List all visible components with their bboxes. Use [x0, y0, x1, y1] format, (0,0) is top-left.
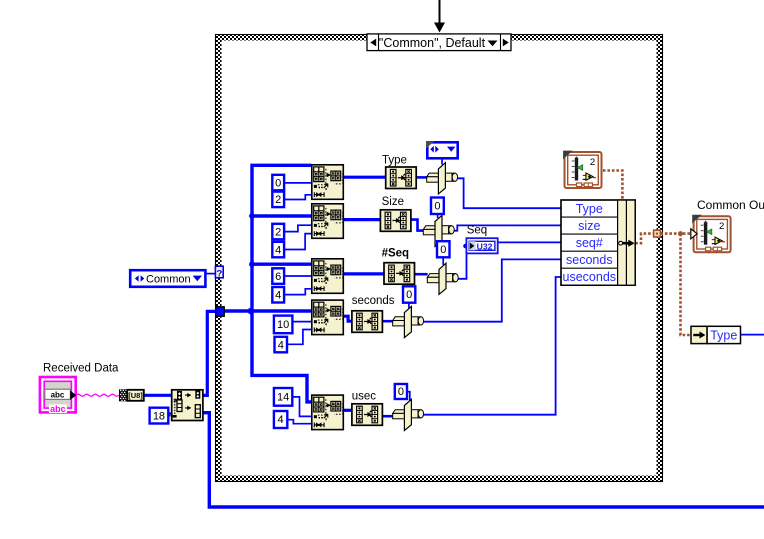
join numbers row1 Type [427, 163, 458, 194]
svg-text:Type: Type [576, 202, 603, 216]
type cast node usec [352, 404, 383, 426]
wire const 4 row4 length [287, 330, 311, 345]
svg-text:2: 2 [719, 221, 724, 232]
case structure border [215, 34, 663, 482]
numeric constant 2 row2 [272, 224, 284, 240]
numeric constant 18 [150, 408, 169, 424]
input tunnel (solid blue square) [216, 307, 225, 317]
numeric constant 0 above seconds join [403, 286, 415, 302]
enum constant Common [130, 270, 205, 287]
wire useconds value to bundle [424, 277, 561, 415]
numeric constant 4 row4 [275, 337, 288, 353]
svg-text:10: 10 [277, 319, 289, 331]
junction seq wire at U32 indicator [463, 244, 468, 249]
junction cluster wire [678, 231, 683, 236]
svg-text:0: 0 [398, 386, 404, 398]
wire unbundle Type output [741, 334, 764, 336]
wire const 4 row3 length [284, 289, 311, 295]
array subset node row2 Size [312, 204, 345, 239]
svg-text:?: ? [216, 268, 222, 279]
join numbers row3 #Seq [427, 263, 458, 294]
svg-text:"Common", Default: "Common", Default [379, 36, 486, 50]
svg-text:[U8]: [U8] [128, 391, 143, 400]
svg-text:seq#: seq# [576, 236, 603, 250]
type cast node #Seq [384, 263, 415, 285]
svg-text:4: 4 [275, 244, 281, 256]
svg-text:0: 0 [406, 289, 412, 301]
junction trunk row3 [249, 261, 255, 267]
wire split bottom output down and right [203, 413, 764, 507]
array subset node row3 #Seq [312, 259, 345, 294]
wire subset5 to typecast usec [343, 409, 352, 412]
wire branch row3 [252, 263, 311, 266]
wire enum constant to join1 [441, 160, 443, 165]
wire subset2 to typecast Size [343, 218, 380, 221]
case selector label "Common", Default [367, 34, 511, 51]
numeric constant 0 above #Seq join [437, 241, 450, 257]
numeric constant 10 row4 [274, 316, 293, 334]
svg-text:2: 2 [590, 157, 595, 168]
numeric constant 14 row5 [274, 388, 292, 406]
wire const 2 row1 length [284, 195, 311, 200]
string to byte array cast [U8] [119, 389, 144, 401]
svg-text:abc: abc [50, 404, 66, 414]
array subset node row1 Type [312, 165, 345, 200]
svg-text:seconds: seconds [352, 295, 395, 307]
cluster wire constant to bundle [603, 171, 623, 201]
wire trunk vertical with branches [252, 165, 311, 402]
wire const 4 row2 length [284, 234, 311, 250]
svg-text:Type: Type [710, 328, 737, 342]
array subset node row5 usec [312, 395, 345, 430]
join numbers row5 usec [393, 399, 424, 430]
svg-text:size: size [578, 219, 600, 233]
svg-text:0: 0 [434, 200, 440, 212]
wire const 0 to join5 [407, 392, 410, 401]
split 1D array node [172, 390, 203, 421]
string wire squiggle [76, 394, 119, 396]
wire const 18 to split [168, 413, 171, 415]
svg-text:U32: U32 [477, 241, 493, 251]
wire typecast seconds to join [383, 320, 393, 323]
svg-text:14: 14 [277, 392, 289, 404]
svg-text:Common Out: Common Out [697, 198, 764, 212]
join numbers row2 Size [423, 215, 454, 246]
svg-text:Size: Size [382, 196, 404, 208]
numeric constant 0 above Size join [431, 198, 444, 215]
wire const 14 row5 index [292, 397, 311, 417]
wire Type value to bundle [457, 178, 561, 208]
wire const 6 row3 index [284, 275, 311, 277]
numeric constant 4 row2 [272, 242, 284, 257]
wire enum Common to selector tunnel [207, 273, 216, 275]
type cast node Type [386, 167, 417, 189]
svg-text:seconds: seconds [566, 253, 613, 267]
svg-text:4: 4 [278, 339, 284, 351]
bundle by name node [561, 200, 635, 285]
numeric indicator Seq U32 [466, 238, 497, 253]
arrow into case structure [434, 0, 445, 33]
junction trunk row2 [249, 213, 255, 219]
type cast node seconds [352, 311, 383, 333]
type cast node Size [380, 210, 411, 232]
svg-text:useconds: useconds [563, 270, 617, 284]
wire seconds value to bundle [424, 259, 561, 321]
wire branch row2 [252, 214, 311, 217]
cluster wire bundle to tunnel [635, 234, 653, 244]
svg-text:2: 2 [275, 194, 281, 206]
svg-text:0: 0 [440, 244, 446, 256]
wire subset4 to typecast seconds [343, 316, 352, 321]
wire const 0 to join4 [408, 303, 410, 309]
wire const 0 to join3 [442, 257, 444, 265]
unbundle by name node Type [691, 326, 741, 343]
wire split top output to tunnel [203, 311, 216, 395]
wire subset1 to typecast Type [343, 176, 385, 179]
svg-text:6: 6 [275, 271, 281, 283]
wire const 0 to join2 [437, 214, 439, 218]
numeric constant 0 above usec join [395, 384, 407, 399]
cluster wire tunnel to Common Out [660, 232, 697, 235]
svg-text:4: 4 [275, 289, 281, 301]
svg-text:0: 0 [275, 177, 281, 189]
string control Received Data [40, 377, 76, 414]
cluster wire branch to unbundle [681, 234, 692, 335]
output tunnel (cluster) [654, 230, 661, 237]
svg-text:Seq: Seq [467, 225, 487, 237]
junction trunk row4 [248, 308, 255, 315]
wire seq value to bundle [458, 242, 561, 278]
svg-text:2: 2 [275, 226, 281, 238]
svg-text:Received Data: Received Data [43, 363, 119, 375]
svg-text:Type: Type [382, 155, 407, 167]
numeric constant 2 row1 [272, 192, 284, 208]
wire size value to bundle [452, 225, 561, 230]
svg-text:abc: abc [51, 390, 65, 399]
cluster indicator Common Out [691, 215, 731, 253]
svg-text:4: 4 [278, 414, 284, 426]
wire received data to byte array (array) [144, 394, 171, 397]
wire typecast usec to join [383, 415, 393, 418]
wire typecast #Seq to join [415, 273, 428, 276]
cluster constant above bundle [563, 151, 601, 189]
svg-text:Common: Common [146, 273, 191, 285]
numeric constant 0 row1 [272, 175, 284, 191]
wire tunnel to trunk and seconds subset [224, 309, 311, 312]
wire const 0 row1 index [284, 182, 311, 184]
svg-text:usec: usec [352, 391, 377, 403]
wire const 4 row5 length [287, 420, 311, 424]
case selector tunnel ? [215, 266, 223, 279]
numeric constant 4 row3 [272, 287, 284, 303]
wire typecast Size to join [411, 220, 423, 231]
wire typecast Type to join [417, 176, 427, 179]
wire const 10 row4 index [292, 321, 311, 323]
enum constant (blank) above Type join [426, 141, 458, 158]
array subset node row4 seconds [312, 300, 345, 335]
svg-text:18: 18 [153, 410, 165, 422]
wire subset3 to typecast #Seq [343, 272, 384, 275]
join numbers row4 seconds [393, 306, 424, 337]
svg-text:#Seq: #Seq [382, 248, 410, 260]
numeric constant 6 row3 [272, 268, 284, 284]
wire const 2 row2 index [284, 225, 311, 231]
numeric constant 4 row5 [274, 411, 287, 428]
